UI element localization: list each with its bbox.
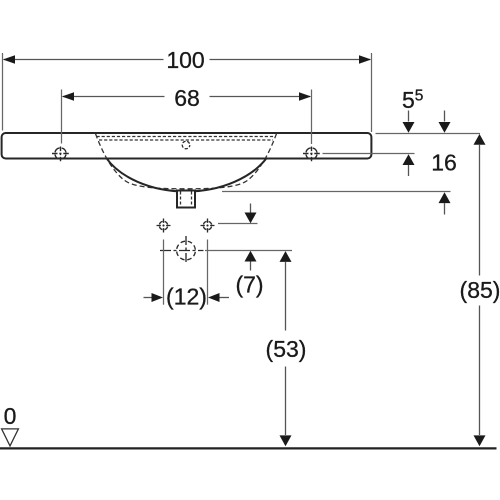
dimension 12 left arrow stem bbox=[144, 297, 152, 299]
dimension 53 top arrow bbox=[280, 251, 292, 262]
dimension 5.5 upper arrow stem bbox=[408, 111, 410, 122]
floor line bbox=[0, 447, 497, 449]
inner bowl hidden contour dashed bbox=[96, 134, 277, 189]
fixing point level reference line bbox=[218, 223, 258, 225]
dimension 68 arrow left bbox=[62, 92, 74, 101]
dimension 68 extension line right bbox=[311, 90, 313, 145]
svg-text:68: 68 bbox=[174, 85, 200, 111]
dimension 16 lower arrow stem bbox=[444, 203, 446, 214]
dimension 85 top arrow bbox=[474, 134, 486, 145]
dimension 12 right arrow bbox=[208, 293, 220, 302]
dimension 12 extension line left bbox=[163, 240, 165, 305]
svg-text:16: 16 bbox=[431, 150, 457, 176]
dimension 5.5 lower arrow bbox=[403, 154, 415, 165]
dimension 68 extension line left bbox=[61, 90, 63, 144]
svg-text:0: 0 bbox=[4, 403, 17, 429]
hidden rim edge dashed line upper bbox=[97, 136, 276, 138]
outer bowl contour bbox=[107, 158, 267, 191]
svg-text:(12): (12) bbox=[166, 284, 207, 310]
dimension 12 left arrow bbox=[152, 293, 164, 302]
dimension 5.5 upper arrow bbox=[403, 122, 415, 133]
svg-text:(85): (85) bbox=[460, 277, 500, 303]
dimension 7 upper arrow bbox=[245, 213, 257, 224]
dimension 12 extension line right bbox=[207, 240, 209, 305]
dimension 53 bottom arrow bbox=[280, 435, 292, 446]
bowl bottom reference line bbox=[222, 191, 451, 193]
dimension 100 arrow left bbox=[3, 55, 15, 64]
dimension 100 extension line left bbox=[2, 53, 4, 131]
dimension 68 arrow right bbox=[299, 92, 311, 101]
dimension 53 line lower segment bbox=[285, 367, 287, 436]
dimension 68 line right segment bbox=[210, 96, 311, 98]
drain hidden inner wall right bbox=[191, 192, 193, 207]
small fixing crosshair right bbox=[201, 219, 215, 233]
dimension 7 lower arrow stem bbox=[250, 262, 252, 271]
washbasin slab outline bbox=[2, 133, 372, 159]
dimension 16 upper arrow bbox=[439, 122, 451, 133]
dimension 68 line left segment bbox=[63, 96, 165, 98]
waste outlet level reference line bbox=[205, 250, 292, 252]
dimension 100 arrow right bbox=[359, 55, 371, 64]
slab top reference line bbox=[376, 133, 481, 135]
dimension 53 line upper segment bbox=[285, 262, 287, 331]
dimension 16 upper arrow stem bbox=[444, 111, 446, 122]
waste outlet crosshair bbox=[160, 236, 204, 265]
dimension 100 extension line right bbox=[371, 53, 373, 132]
drain outlet body bbox=[177, 191, 195, 208]
svg-text:(7): (7) bbox=[235, 272, 263, 298]
left fixing hole crosshair bbox=[52, 147, 69, 162]
dimension 5.5 lower arrow stem bbox=[408, 165, 410, 176]
dimension 85 bottom arrow bbox=[474, 435, 486, 446]
svg-text:(53): (53) bbox=[266, 336, 307, 362]
right fixing hole crosshair bbox=[303, 147, 320, 162]
dimension 7 upper arrow stem bbox=[250, 204, 252, 213]
dimension 100 line left segment bbox=[4, 59, 164, 61]
hidden rim edge dashed line lower bbox=[99, 139, 273, 141]
dimension 85 line lower segment bbox=[479, 306, 481, 436]
small fixing crosshair left bbox=[157, 219, 171, 233]
dimension 85 line upper segment bbox=[479, 145, 481, 276]
svg-text:100: 100 bbox=[166, 47, 204, 73]
tap hole dashed circle bbox=[182, 141, 190, 149]
dimension 16 lower arrow bbox=[439, 192, 451, 203]
dimension 100 line right segment bbox=[210, 59, 371, 61]
dimension 12 right arrow stem bbox=[220, 297, 230, 299]
datum symbol triangle bbox=[2, 429, 19, 446]
drain hidden inner wall left bbox=[180, 192, 182, 207]
fixing hole level reference line right bbox=[323, 153, 415, 155]
dimension 7 lower arrow bbox=[245, 251, 257, 262]
